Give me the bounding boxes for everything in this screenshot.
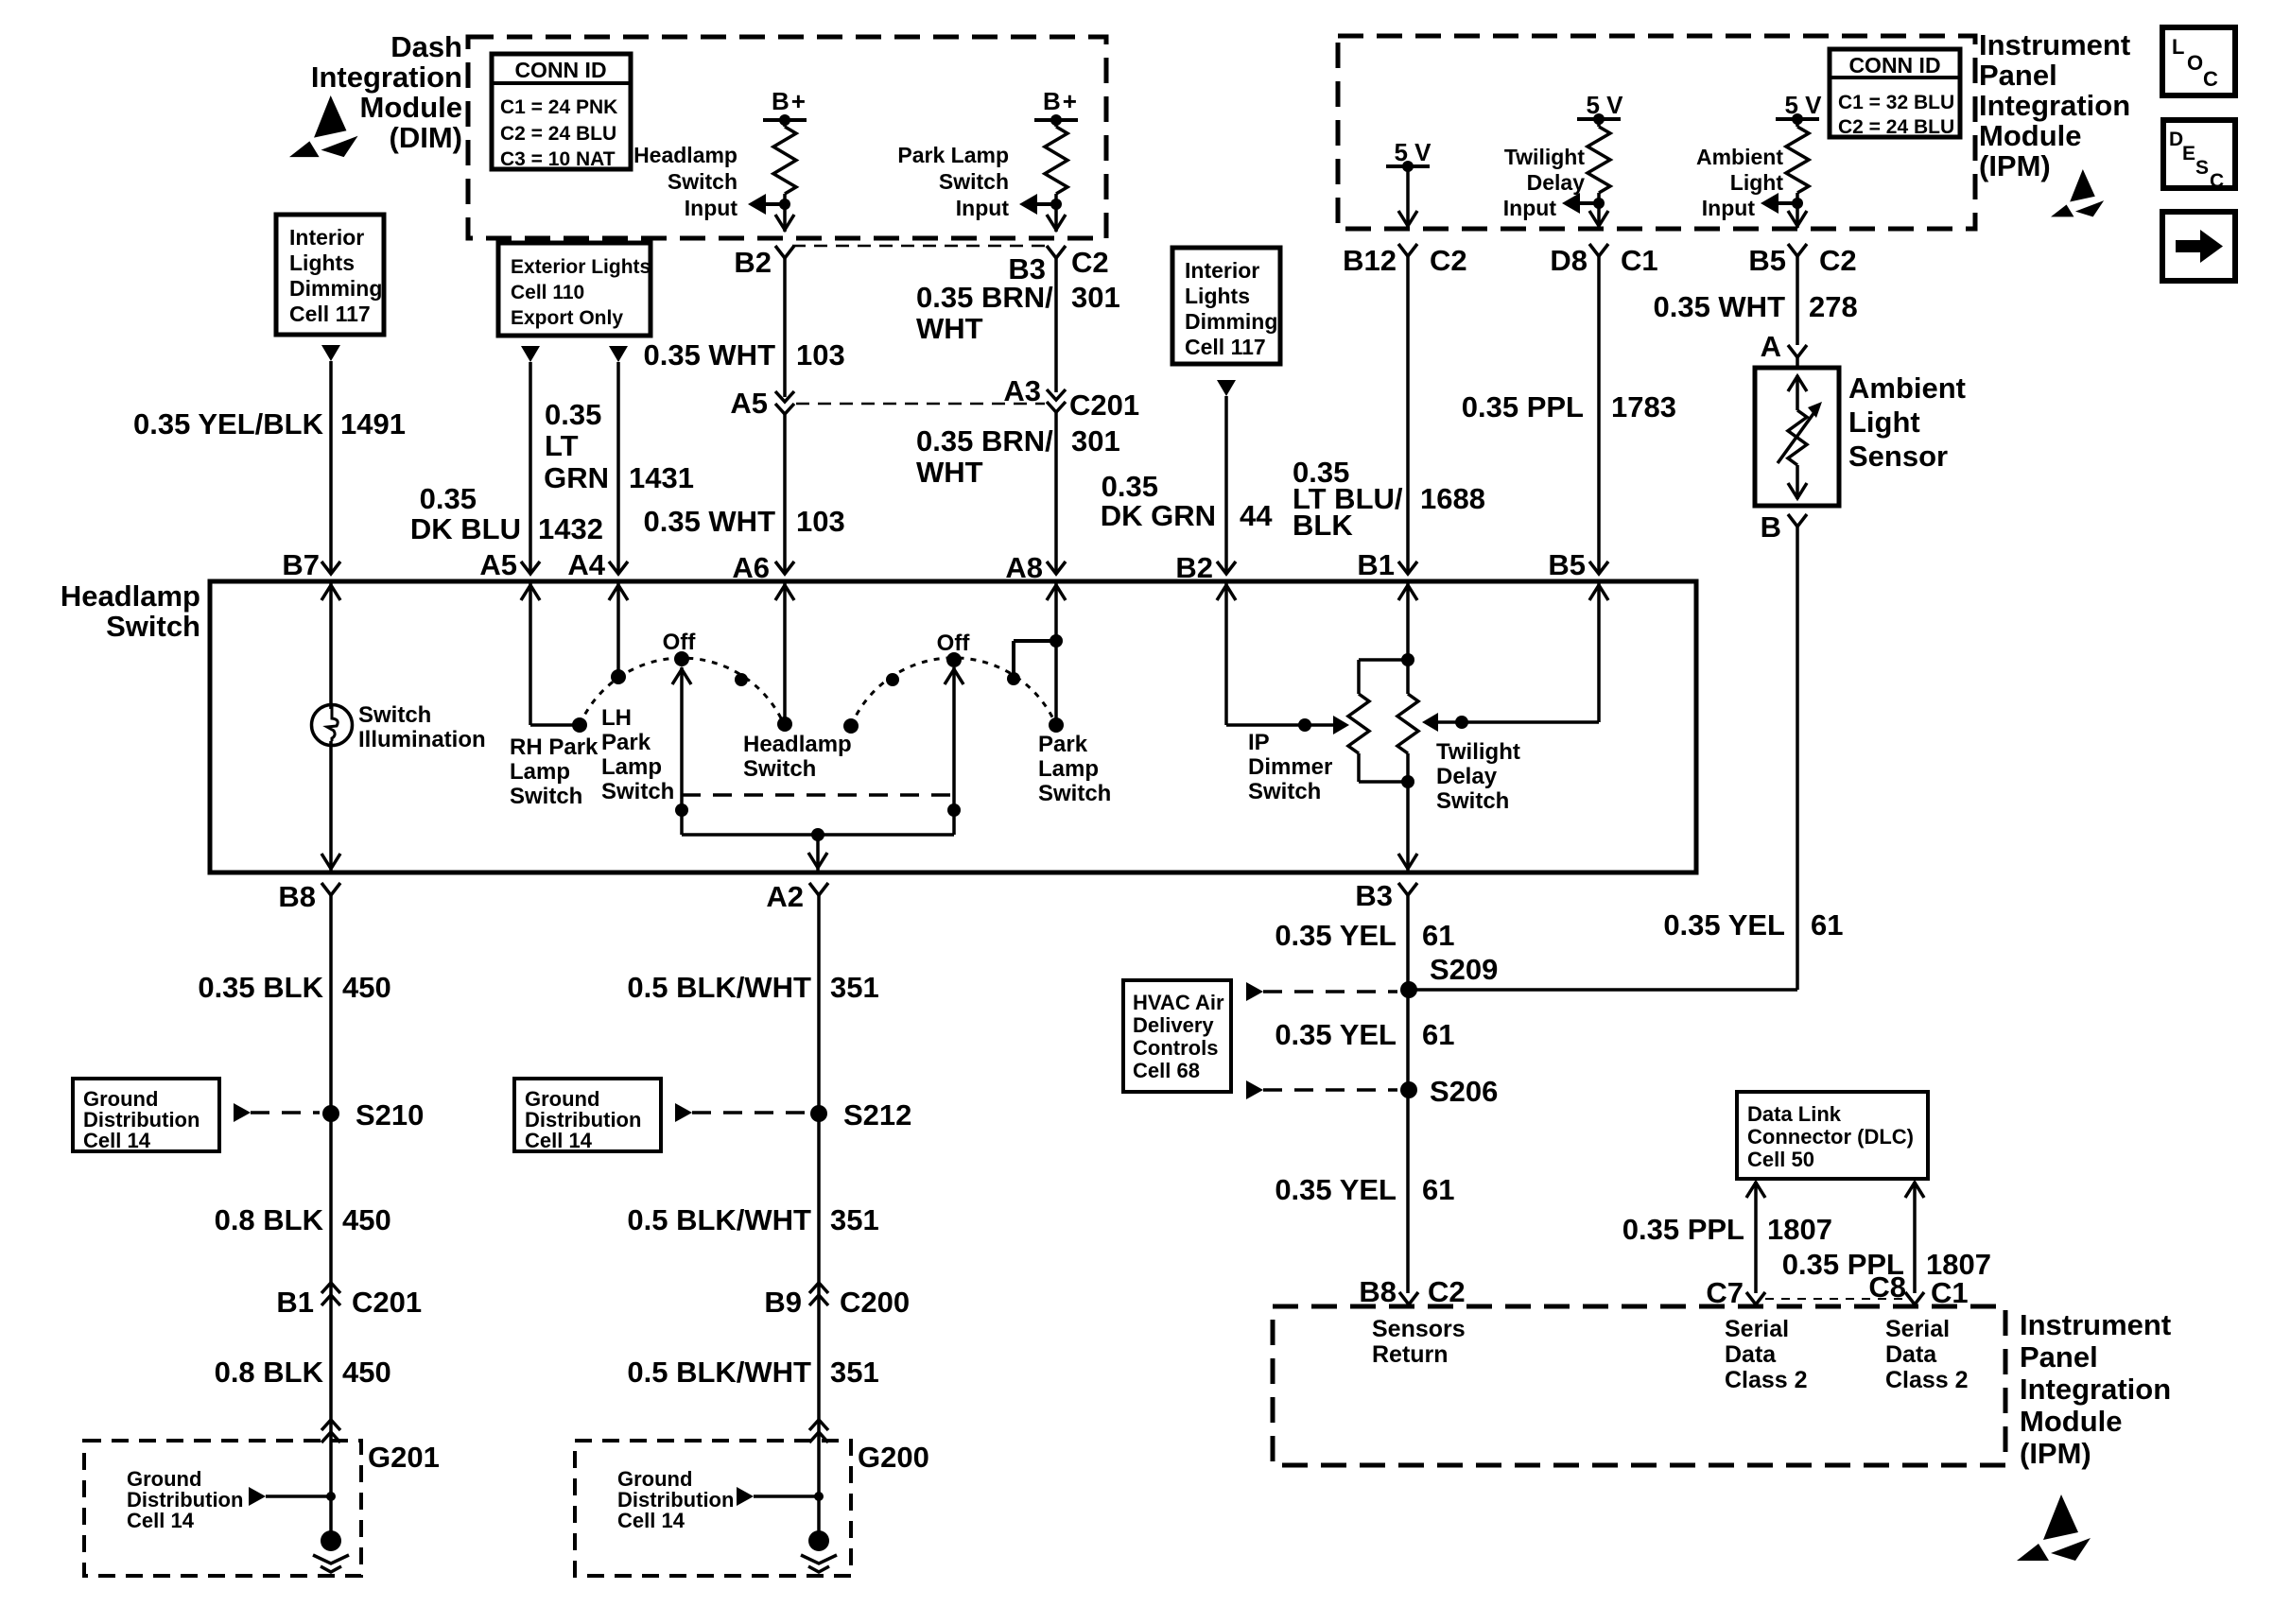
svg-text:Delay: Delay — [1527, 170, 1586, 195]
wiper common bus to A2 — [682, 828, 954, 871]
in-line connector A3 / C201 — [1003, 374, 1139, 422]
svg-text:Switch: Switch — [510, 784, 582, 809]
Ground Distribution Cell 14 box left — [73, 1079, 219, 1152]
wire 0.35 DK GRN 44 (B2 headlamp sw) — [1101, 396, 1274, 571]
svg-text:Delay: Delay — [1436, 764, 1498, 789]
svg-text:S209: S209 — [1430, 953, 1498, 986]
svg-text:Panel: Panel — [1979, 59, 2057, 92]
svg-text:Cell 14: Cell 14 — [83, 1129, 151, 1152]
svg-text:Switch: Switch — [939, 169, 1009, 194]
svg-text:Switch: Switch — [743, 756, 816, 782]
svg-text:0.8 BLK: 0.8 BLK — [215, 1203, 324, 1236]
svg-text:Cell 14: Cell 14 — [617, 1509, 685, 1532]
label Ambient Light Sensor — [1848, 371, 1966, 473]
label Headlamp Switch Input — [633, 143, 737, 220]
svg-text:Cell 14: Cell 14 — [525, 1129, 593, 1152]
wire 0.35 YEL/BLK 1491 — [133, 361, 406, 571]
Instrument Panel Integration Module (IPM) dashed outline top — [1338, 36, 1975, 229]
svg-text:A2: A2 — [766, 880, 804, 913]
G200 box text — [617, 1467, 734, 1532]
svg-text:Headlamp: Headlamp — [743, 732, 852, 757]
twilight delay input arrow — [1562, 193, 1599, 214]
wire 0.35 YEL 61 (S209 to S206) — [1275, 1018, 1454, 1051]
headlamp switch rotary arc — [580, 658, 784, 725]
wire 0.8 BLK 450 lower — [215, 1356, 391, 1389]
svg-text:Dimmer: Dimmer — [1248, 754, 1332, 780]
pin B5 connector — [1548, 548, 1608, 581]
svg-text:B12: B12 — [1343, 244, 1397, 277]
park rotary wiper — [945, 667, 963, 835]
svg-text:Headlamp: Headlamp — [61, 579, 200, 613]
svg-text:1491: 1491 — [340, 407, 406, 441]
5V stub B12 (IPM) — [1386, 138, 1431, 228]
svg-text:C201: C201 — [352, 1286, 422, 1319]
wire 0.35 PPL 1783 (D8 to B5) — [1462, 256, 1676, 571]
wire B5 to twilight delay wiper — [1422, 581, 1608, 732]
label Sensors Return — [1372, 1316, 1466, 1368]
svg-text:Lights: Lights — [289, 251, 355, 275]
svg-text:0.5 BLK/WHT: 0.5 BLK/WHT — [627, 1203, 811, 1236]
svg-text:B7: B7 — [282, 548, 320, 581]
svg-text:BLK: BLK — [1293, 509, 1353, 542]
svg-text:Exterior Lights: Exterior Lights — [511, 256, 651, 278]
svg-text:HVAC Air: HVAC Air — [1133, 991, 1224, 1014]
label Headlamp Switch rotor — [743, 732, 852, 782]
svg-text:Light: Light — [1848, 406, 1920, 439]
svg-text:Class 2: Class 2 — [1725, 1367, 1808, 1393]
svg-text:B1: B1 — [1357, 548, 1395, 581]
svg-text:Dash: Dash — [390, 30, 462, 63]
wire 0.35 BRN/WHT 301 lower (A3 to A8) — [916, 412, 1120, 571]
svg-text:Input: Input — [1503, 196, 1557, 220]
svg-text:Interior: Interior — [289, 225, 364, 250]
svg-text:Controls: Controls — [1133, 1036, 1218, 1060]
svg-text:Connector (DLC): Connector (DLC) — [1747, 1125, 1914, 1149]
wire B12 exit arrow — [1398, 211, 1417, 226]
svg-text:C1: C1 — [1931, 1276, 1969, 1309]
pin A8 connector — [1005, 551, 1066, 584]
LOC legend box — [2162, 27, 2235, 95]
svg-text:450: 450 — [342, 971, 391, 1004]
contact LH park lamp (A4) — [609, 581, 628, 684]
svg-text:0.35: 0.35 — [545, 398, 601, 431]
svg-text:S206: S206 — [1430, 1075, 1498, 1108]
pointer from Interior Lights box — [321, 345, 340, 361]
svg-text:Lamp: Lamp — [1038, 756, 1099, 782]
label IP Dimmer Switch — [1248, 730, 1332, 804]
svg-text:A8: A8 — [1005, 551, 1043, 584]
svg-text:Headlamp: Headlamp — [633, 143, 737, 167]
svg-text:C2: C2 — [1819, 244, 1857, 277]
splice S210 — [322, 1098, 424, 1132]
headlamp rotary wiper — [672, 667, 691, 835]
connector B3 (DIM C2) — [1008, 246, 1108, 285]
svg-text:0.35 YEL: 0.35 YEL — [1663, 908, 1785, 942]
wire 0.35 BRN/WHT 301 upper (B3 to A3) — [916, 258, 1120, 392]
svg-text:103: 103 — [796, 505, 845, 538]
svg-text:A5: A5 — [479, 548, 517, 581]
connector C2 line DIM — [792, 245, 1049, 248]
svg-text:Cell 117: Cell 117 — [1185, 335, 1266, 359]
wire B3 exit of headlamp switch — [1398, 782, 1417, 872]
DESC legend box — [2163, 120, 2235, 192]
splice S209 — [1400, 953, 1498, 998]
svg-text:301: 301 — [1071, 424, 1120, 458]
svg-text:A5: A5 — [730, 387, 768, 420]
svg-text:1431: 1431 — [629, 461, 694, 494]
resistor ambient light input (IPM) — [1776, 91, 1822, 228]
G200 arrow into wire — [737, 1487, 824, 1506]
wire serial data class 2 (C1) — [1782, 1182, 1991, 1293]
svg-text:Ambient: Ambient — [1848, 371, 1966, 405]
svg-text:GRN: GRN — [544, 461, 609, 494]
svg-text:E: E — [2182, 143, 2195, 164]
svg-text:B1: B1 — [276, 1286, 314, 1319]
svg-text:0.35 YEL/BLK: 0.35 YEL/BLK — [133, 407, 324, 441]
svg-text:Park Lamp: Park Lamp — [897, 143, 1009, 167]
svg-text:Return: Return — [1372, 1341, 1449, 1368]
svg-text:Export Only: Export Only — [511, 307, 623, 329]
svg-text:LT: LT — [545, 429, 579, 462]
pointer to wire A4 — [609, 346, 628, 362]
svg-text:Integration: Integration — [311, 60, 462, 94]
label RH Park Lamp Switch — [510, 734, 599, 809]
svg-text:Cell 50: Cell 50 — [1747, 1148, 1814, 1171]
svg-text:Cell 117: Cell 117 — [289, 302, 371, 326]
svg-text:Dimming: Dimming — [1185, 309, 1277, 334]
svg-text:Instrument: Instrument — [2020, 1308, 2171, 1341]
svg-text:Lamp: Lamp — [510, 759, 570, 785]
svg-text:IP: IP — [1248, 730, 1270, 755]
svg-text:Dimming: Dimming — [289, 276, 382, 301]
svg-text:Park: Park — [601, 730, 651, 755]
in-line connector A5 / C201 — [730, 387, 794, 420]
connector B3 below box — [1355, 879, 1417, 912]
wire B2 exit arrow — [775, 215, 794, 230]
svg-text:Integration: Integration — [1979, 89, 2130, 122]
svg-text:0.35 YEL: 0.35 YEL — [1275, 919, 1397, 952]
svg-text:B2: B2 — [1175, 551, 1213, 584]
svg-text:G201: G201 — [368, 1441, 440, 1474]
svg-text:0.35 WHT: 0.35 WHT — [643, 338, 775, 371]
ground G201 dashed box — [84, 1441, 440, 1576]
connector B12 (IPM C2) — [1343, 244, 1467, 277]
svg-text:44: 44 — [1240, 499, 1273, 532]
svg-text:G200: G200 — [858, 1441, 929, 1474]
svg-text:1688: 1688 — [1420, 482, 1485, 515]
svg-text:Switch: Switch — [1248, 779, 1321, 804]
svg-text:0.8 BLK: 0.8 BLK — [215, 1356, 324, 1389]
svg-text:5 V: 5 V — [1586, 91, 1623, 119]
Instrument Panel Integration Module bottom dashed box — [1273, 1306, 2005, 1465]
svg-text:B5: B5 — [1748, 244, 1786, 277]
ambient light sensor box — [1755, 368, 1839, 506]
svg-text:Data: Data — [1725, 1341, 1777, 1368]
Data Link Connector DLC Cell 50 box — [1737, 1092, 1928, 1179]
wire B3 exit arrow — [1047, 215, 1066, 230]
resistor headlamp switch input (DIM) — [763, 87, 807, 232]
svg-text:5 V: 5 V — [1784, 91, 1822, 119]
dashed link to S212 — [675, 1103, 807, 1122]
svg-text:C: C — [2203, 67, 2218, 91]
svg-text:61: 61 — [1422, 1018, 1454, 1051]
splice S212 — [810, 1098, 911, 1132]
svg-text:Serial: Serial — [1885, 1316, 1950, 1342]
svg-text:C7: C7 — [1706, 1276, 1744, 1309]
connector C7 — [1706, 1276, 1765, 1309]
G201 arrow into wire — [249, 1487, 336, 1506]
label Twilight Delay Input — [1503, 145, 1586, 220]
wire 0.35 YEL 61 sensor return — [1409, 527, 1843, 990]
svg-text:C1 = 24 PNK: C1 = 24 PNK — [500, 96, 617, 118]
svg-text:Off: Off — [937, 631, 971, 656]
module label IPM bottom — [2020, 1308, 2171, 1470]
svg-text:Input: Input — [956, 196, 1010, 220]
svg-text:Module: Module — [2020, 1405, 2123, 1438]
svg-text:Cell 68: Cell 68 — [1133, 1059, 1200, 1082]
svg-text:Interior: Interior — [1185, 258, 1259, 283]
connector B8 / C2 at IPM — [1359, 1275, 1465, 1308]
CONN ID table DIM — [492, 54, 631, 170]
svg-text:Sensor: Sensor — [1848, 440, 1948, 473]
svg-text:(DIM): (DIM) — [390, 121, 462, 154]
pin B1 connector — [1357, 548, 1417, 581]
svg-text:Lamp: Lamp — [601, 754, 662, 780]
svg-text:A4: A4 — [567, 548, 605, 581]
svg-text:RH Park: RH Park — [510, 734, 599, 760]
svg-text:C3 = 10 NAT: C3 = 10 NAT — [500, 148, 616, 170]
svg-text:Switch: Switch — [601, 779, 674, 804]
module label DIM — [311, 30, 462, 154]
label Twilight Delay Switch — [1436, 739, 1520, 814]
svg-text:Delivery: Delivery — [1133, 1013, 1214, 1037]
ESD symbol DIM — [289, 95, 358, 157]
mechanical link dashed line — [682, 793, 954, 797]
svg-text:301: 301 — [1071, 281, 1120, 314]
svg-text:Module: Module — [1979, 119, 2082, 152]
svg-text:Ambient: Ambient — [1696, 145, 1783, 169]
wire 0.35 YEL 61 (S206 to B8) — [1275, 1173, 1454, 1206]
svg-text:Panel: Panel — [2020, 1340, 2098, 1373]
label Switch Illumination — [358, 702, 486, 752]
svg-text:B+: B+ — [1043, 87, 1079, 115]
svg-text:Off: Off — [663, 630, 697, 655]
svg-text:Data Link: Data Link — [1747, 1102, 1842, 1126]
wire 0.5 BLK/WHT 351 lower — [627, 1356, 878, 1389]
ground lead-in connector G201 — [321, 1420, 340, 1443]
svg-text:Serial: Serial — [1725, 1316, 1789, 1342]
svg-text:A6: A6 — [732, 551, 770, 584]
svg-text:450: 450 — [342, 1203, 391, 1236]
svg-text:0.35 WHT: 0.35 WHT — [643, 505, 775, 538]
label Serial Data Class 2 right — [1885, 1316, 1969, 1393]
dashed link HVAC to S209 — [1246, 982, 1397, 1001]
svg-text:Switch: Switch — [106, 610, 200, 643]
svg-text:0.35 YEL: 0.35 YEL — [1275, 1173, 1397, 1206]
svg-text:0.5 BLK/WHT: 0.5 BLK/WHT — [627, 1356, 811, 1389]
pin A6 connector — [732, 551, 794, 584]
svg-text:351: 351 — [830, 971, 879, 1004]
svg-text:C201: C201 — [1069, 389, 1139, 422]
svg-text:DK GRN: DK GRN — [1101, 499, 1216, 532]
dashed link HVAC to S206 — [1246, 1080, 1397, 1099]
svg-text:S212: S212 — [843, 1098, 911, 1132]
in-line connector B1 / C201 bottom — [276, 1283, 422, 1319]
wire 0.35 DK BLU 1432 (A5) — [410, 362, 603, 571]
svg-text:Lights: Lights — [1185, 284, 1250, 308]
svg-text:C: C — [2210, 170, 2224, 192]
park lamp switch rotary arc — [851, 658, 1056, 726]
svg-text:103: 103 — [796, 338, 845, 371]
in-line connector B9 / C200 — [764, 1283, 910, 1319]
svg-text:CONN ID: CONN ID — [1848, 53, 1940, 78]
contact headlamp feed (A6) — [775, 581, 794, 732]
svg-text:Module: Module — [360, 91, 463, 124]
svg-text:LH: LH — [601, 705, 632, 731]
svg-text:A: A — [1761, 330, 1781, 363]
ESD symbol IPM bottom — [2017, 1494, 2091, 1561]
pin B2 connector — [1175, 551, 1236, 584]
connector B2 (DIM C2) — [734, 246, 794, 279]
svg-text:61: 61 — [1811, 908, 1843, 942]
wire 0.35 LT BLU/BLK 1688 (B12 to B1) — [1293, 256, 1485, 571]
svg-text:B+: B+ — [772, 87, 807, 115]
arrow legend box — [2162, 212, 2235, 281]
arc contact dots right rotary — [843, 652, 962, 734]
svg-text:B8: B8 — [278, 880, 316, 913]
svg-text:Twilight: Twilight — [1504, 145, 1586, 169]
wire 0.35 WHT 103 lower (A5 to A6) — [643, 414, 844, 571]
connector A at ambient light sensor — [1761, 330, 1807, 363]
svg-text:351: 351 — [830, 1203, 879, 1236]
svg-text:C200: C200 — [840, 1286, 910, 1319]
svg-text:B5: B5 — [1548, 548, 1586, 581]
Headlamp Switch outline box — [210, 581, 1696, 872]
ground symbol G200 — [801, 1530, 837, 1572]
svg-text:0.35: 0.35 — [1102, 470, 1158, 503]
module label IPM top — [1979, 28, 2130, 182]
wire D8 exit arrow — [1589, 211, 1608, 226]
wire 0.35 YEL 61 (B3 to S209) — [1275, 895, 1454, 1293]
ground lead-in connector G200 — [809, 1420, 828, 1443]
G201 box text — [127, 1467, 243, 1532]
wire B5 exit arrow — [1788, 211, 1807, 226]
HVAC Air Delivery Controls Cell 68 box — [1123, 980, 1231, 1092]
Exterior Lights Cell 110 box — [498, 243, 651, 336]
connector B at ambient light sensor — [1761, 510, 1807, 544]
svg-text:Integration: Integration — [2020, 1373, 2171, 1406]
wire serial data class 2 (C7) — [1622, 1182, 1832, 1293]
connector D8 (IPM C1) — [1550, 244, 1657, 277]
svg-text:Data: Data — [1885, 1341, 1937, 1368]
svg-text:Illumination: Illumination — [358, 727, 486, 752]
svg-text:1807: 1807 — [1767, 1213, 1832, 1246]
svg-text:(IPM): (IPM) — [2020, 1437, 2091, 1470]
wire 0.5 BLK/WHT 351 mid — [627, 1203, 878, 1236]
pin A4 connector — [567, 548, 628, 581]
svg-text:61: 61 — [1422, 919, 1454, 952]
ground G200 dashed box — [575, 1441, 929, 1576]
headlamp switch input arrow — [748, 194, 785, 215]
svg-text:Sensors: Sensors — [1372, 1316, 1466, 1342]
svg-text:Light: Light — [1730, 170, 1784, 195]
pointer to wire A5 — [521, 346, 540, 362]
pin B7 connector — [282, 548, 340, 581]
svg-text:278: 278 — [1809, 290, 1858, 323]
contact park lamp feed (A8) — [1007, 581, 1066, 733]
label Ambient Light Input — [1696, 145, 1783, 220]
label LH Park Lamp Switch — [601, 705, 674, 804]
Interior Lights Dimming Cell 117 box (left) — [276, 215, 384, 335]
CONN ID table IPM — [1830, 49, 1960, 138]
svg-text:S210: S210 — [356, 1098, 424, 1132]
svg-text:1432: 1432 — [538, 512, 603, 545]
svg-text:Switch: Switch — [668, 169, 737, 194]
resistor park lamp switch input (DIM) — [1034, 87, 1079, 232]
svg-text:0.35: 0.35 — [420, 482, 477, 515]
svg-text:B8: B8 — [1359, 1275, 1397, 1308]
svg-text:L: L — [2172, 35, 2184, 59]
svg-text:Instrument: Instrument — [1979, 28, 2130, 61]
wire 0.35 WHT 103 upper (B2 to A5) — [643, 258, 844, 397]
svg-text:O: O — [2187, 51, 2203, 75]
label Serial Data Class 2 left — [1725, 1316, 1808, 1393]
pointer from Interior Lights box right — [1217, 380, 1236, 396]
svg-text:WHT: WHT — [916, 312, 983, 345]
svg-text:Cell 14: Cell 14 — [127, 1509, 195, 1532]
ground symbol G201 — [313, 1530, 349, 1572]
label Park Lamp Switch Input — [897, 143, 1009, 220]
svg-text:C2: C2 — [1071, 246, 1109, 279]
svg-text:Input: Input — [685, 196, 738, 220]
svg-text:1783: 1783 — [1611, 390, 1676, 423]
svg-text:0.35 BRN/: 0.35 BRN/ — [916, 281, 1053, 314]
svg-text:5 V: 5 V — [1394, 138, 1431, 166]
svg-text:B: B — [1761, 510, 1781, 544]
svg-text:450: 450 — [342, 1356, 391, 1389]
svg-text:0.35 BLK: 0.35 BLK — [198, 971, 323, 1004]
svg-text:WHT: WHT — [916, 456, 983, 489]
svg-text:A3: A3 — [1003, 374, 1041, 407]
Dash Integration Module (DIM) dashed outline — [468, 37, 1106, 238]
svg-text:Twilight: Twilight — [1436, 739, 1520, 765]
svg-text:C2 = 24 BLU: C2 = 24 BLU — [500, 123, 616, 145]
svg-text:D8: D8 — [1550, 244, 1588, 277]
ESD symbol IPM top — [2051, 169, 2104, 216]
svg-text:D: D — [2169, 129, 2183, 150]
splice S206 — [1400, 1075, 1498, 1108]
svg-text:351: 351 — [830, 1356, 879, 1389]
svg-text:0.5 BLK/WHT: 0.5 BLK/WHT — [627, 971, 811, 1004]
pin A5 connector — [479, 548, 540, 581]
wire 0.35 BLK 450 — [198, 895, 390, 1541]
wire 0.35 LT GRN 1431 (A4) — [544, 362, 694, 571]
svg-text:Switch: Switch — [1436, 788, 1509, 814]
svg-text:C1 = 32 BLU: C1 = 32 BLU — [1838, 92, 1954, 113]
svg-text:C2 = 24 BLU: C2 = 24 BLU — [1838, 116, 1954, 138]
svg-text:0.35 WHT: 0.35 WHT — [1653, 290, 1785, 323]
arc contact dots left rotary — [674, 651, 748, 686]
svg-text:S: S — [2195, 157, 2209, 179]
svg-text:Park: Park — [1038, 732, 1088, 757]
wire 0.8 BLK 450 upper — [215, 1203, 391, 1236]
svg-text:0.35 PPL: 0.35 PPL — [1622, 1213, 1744, 1246]
svg-text:DK BLU: DK BLU — [410, 512, 521, 545]
connector C1 — [1905, 1276, 1969, 1309]
svg-text:C2: C2 — [1430, 244, 1467, 277]
svg-text:Switch: Switch — [358, 702, 431, 728]
svg-text:B3: B3 — [1355, 879, 1393, 912]
